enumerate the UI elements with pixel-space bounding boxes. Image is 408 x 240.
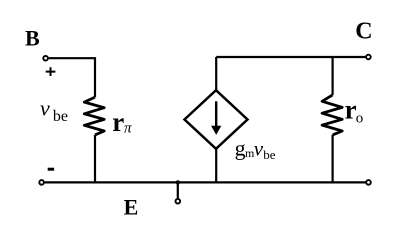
svg-text:be: be <box>263 147 276 162</box>
svg-text:E: E <box>124 194 139 219</box>
svg-text:r: r <box>112 107 124 137</box>
svg-text:B: B <box>25 26 40 51</box>
svg-text:v: v <box>254 136 264 160</box>
svg-text:C: C <box>355 18 372 44</box>
svg-text:r: r <box>345 94 357 124</box>
svg-text:v: v <box>40 96 50 121</box>
svg-text:π: π <box>124 121 132 137</box>
svg-text:g: g <box>235 135 246 160</box>
svg-text:be: be <box>53 108 68 125</box>
svg-text:o: o <box>356 111 364 127</box>
